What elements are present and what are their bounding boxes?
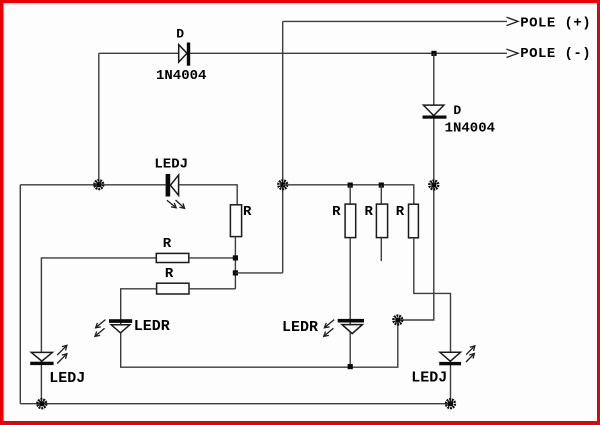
resistor R1 (vertical, top middle) xyxy=(230,205,241,237)
label LEDJ (top) xyxy=(154,157,188,173)
resistor R2h (horizontal 2) xyxy=(157,283,189,294)
wire R2h left down through LEDR1 to lower bus and up to node D xyxy=(121,289,398,367)
label LEDR (right) xyxy=(282,319,318,336)
svg-text:LEDJ: LEDJ xyxy=(49,370,85,387)
svg-text:LEDR: LEDR xyxy=(282,319,318,336)
wire bottom bus xyxy=(20,403,450,405)
junction square at (235,273) xyxy=(233,270,238,275)
svg-text:R: R xyxy=(365,204,374,220)
junction square at (350,185) xyxy=(348,183,353,188)
label R (R3p) xyxy=(365,204,374,220)
junction node B (283,185) xyxy=(278,180,287,189)
label 1N4004 (D1) xyxy=(156,68,206,84)
junction square on POLE(-) at x=434 xyxy=(431,51,436,56)
svg-text:D: D xyxy=(176,27,184,42)
junction node A (99,185) xyxy=(94,180,103,189)
LED LEDR1 (left receiver) xyxy=(109,319,132,333)
label LEDR (left) xyxy=(134,318,170,335)
svg-text:LEDR: LEDR xyxy=(134,318,170,335)
junction square at (235,258) xyxy=(233,255,238,260)
POLE(-) arrowhead xyxy=(507,49,519,57)
label LEDJ (bottom right) xyxy=(411,370,447,387)
LED LEDJ1 (top) xyxy=(166,174,179,197)
wire from node A to diode D1 anode xyxy=(99,52,179,54)
svg-text:R: R xyxy=(163,236,172,252)
POLE(+) arrowhead xyxy=(507,17,519,25)
junction node E (42,403) xyxy=(37,399,46,408)
svg-text:LEDJ: LEDJ xyxy=(411,370,447,387)
wire R1 bottom down through junctions xyxy=(234,237,236,289)
wire from LEDJ1 anode right and down to resistor R1 xyxy=(179,185,238,205)
junction square at (381,185) xyxy=(379,183,384,188)
label LEDJ (bottom left) xyxy=(49,370,85,387)
LEDR2 light arrows xyxy=(324,320,335,337)
label R (R1h) xyxy=(163,236,172,252)
LEDJ2 light arrows xyxy=(57,345,67,363)
wire mid bus y=185 from node B to R4 drop xyxy=(283,185,414,204)
label D (D2) xyxy=(453,103,461,118)
wire R1h right to junction xyxy=(189,257,236,259)
svg-text:R: R xyxy=(165,266,174,282)
label POLE (+) xyxy=(520,15,591,31)
wire vertical from POLE(+) down to mid node xyxy=(282,21,284,273)
wire left rail xyxy=(19,185,21,404)
wire R1h left + down to LEDJ2 and bottom bus xyxy=(41,258,156,404)
svg-text:R: R xyxy=(396,204,405,220)
wire from R4p bottom right and down to LEDJ3 and node F xyxy=(414,238,451,404)
label R (R1) xyxy=(243,204,252,220)
junction node C (434,185) xyxy=(429,181,438,190)
wire R2h right to vertical xyxy=(189,288,235,290)
LEDR1 light arrows xyxy=(95,320,106,337)
label POLE (-) xyxy=(520,46,591,62)
label 1N4004 (D2) xyxy=(445,121,495,137)
junction node F (450,403) xyxy=(446,399,455,408)
wire POLE(-) line xyxy=(190,52,507,54)
wire drop to R2p xyxy=(349,185,351,204)
svg-text:1N4004: 1N4004 xyxy=(445,121,495,137)
LEDJ1 light arrows xyxy=(167,200,185,208)
diode D1 xyxy=(179,43,191,66)
resistor R4p (parallel 3) xyxy=(409,204,419,238)
wire POLE(+) line xyxy=(283,20,507,22)
resistor R1h (horizontal 1) xyxy=(156,253,189,262)
wire from POLE(-) down through D2 to node, then left xyxy=(398,53,434,320)
diode D2 xyxy=(423,105,447,119)
wire vertical from D1 anode down to left bus xyxy=(98,53,100,185)
junction square at (350,367) xyxy=(348,364,353,369)
label D (D1) xyxy=(176,27,184,42)
LED LEDR2 (right receiver) xyxy=(338,319,364,334)
svg-text:POLE (+): POLE (+) xyxy=(520,15,591,31)
LEDJ3 light arrows xyxy=(466,346,475,362)
junction node D (398,320) xyxy=(393,316,402,325)
LED LEDJ2 (bottom left) xyxy=(30,352,53,365)
wire from junction (235,273) to vertical x=283 xyxy=(235,272,282,274)
wire left bus y=185 from left rail to LEDJ1 xyxy=(20,184,165,186)
svg-text:D: D xyxy=(453,103,461,118)
resistor R3p (parallel 2) xyxy=(376,204,387,238)
wire drop to R3p xyxy=(380,185,382,204)
svg-text:POLE (-): POLE (-) xyxy=(520,46,591,62)
wire stub below R3p xyxy=(380,238,382,261)
resistor R2p (parallel 1) xyxy=(345,204,356,238)
label R (R4p) xyxy=(396,204,405,220)
svg-text:1N4004: 1N4004 xyxy=(156,68,206,84)
svg-text:LEDJ: LEDJ xyxy=(154,157,188,173)
label R (R2h) xyxy=(165,266,174,282)
label R (R2p) xyxy=(332,204,341,220)
wire LEDR2 chain from R2p bottom down to bus xyxy=(349,238,351,368)
svg-text:R: R xyxy=(332,204,341,220)
LED LEDJ3 (bottom right) xyxy=(439,352,461,365)
svg-text:R: R xyxy=(243,204,252,220)
